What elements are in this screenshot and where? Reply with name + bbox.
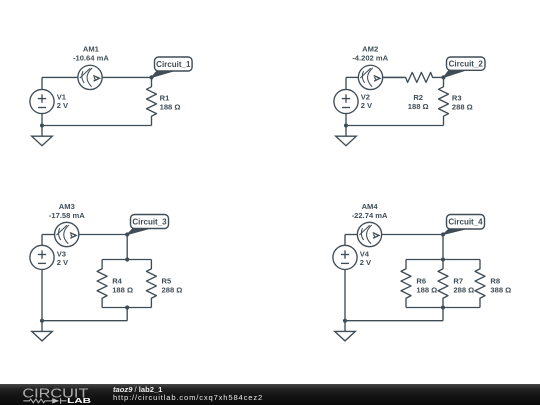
wire parallel bottom rail <box>406 307 480 309</box>
wire AM3 to node Circuit_3 <box>79 234 127 236</box>
node flag Circuit_4 <box>443 215 485 235</box>
svg-text:R1: R1 <box>160 93 170 102</box>
wire parallel bottom to rail <box>126 308 128 321</box>
wire V2 top to AM2 <box>346 76 358 78</box>
wire V4 up <box>344 235 346 246</box>
resistor R1 <box>147 77 157 125</box>
voltage source V4 <box>333 245 357 269</box>
wire V1 top to AM1 <box>42 76 78 78</box>
svg-text:188 Ω: 188 Ω <box>416 285 437 294</box>
svg-text:388 Ω: 388 Ω <box>490 285 511 294</box>
svg-text:288 Ω: 288 Ω <box>162 285 183 294</box>
wire V4 top to AM4 <box>345 234 358 236</box>
svg-text:-10.64 mA: -10.64 mA <box>73 54 109 63</box>
svg-text:Circuit_3: Circuit_3 <box>132 217 167 226</box>
wire bottom rail <box>346 125 444 127</box>
label R7 value <box>453 276 474 294</box>
svg-text:R2: R2 <box>413 93 423 102</box>
wire V3 down <box>41 270 43 321</box>
junction parallel top <box>441 257 445 261</box>
svg-text:2 V: 2 V <box>57 101 69 110</box>
label V1 value <box>57 92 69 109</box>
ground <box>336 126 357 146</box>
CircuitLab logo <box>0 384 100 405</box>
label V3 value <box>57 250 69 267</box>
svg-text:AM4: AM4 <box>362 202 379 211</box>
voltage source V3 <box>30 245 54 269</box>
svg-text:AM1: AM1 <box>83 45 100 54</box>
resistor R6 <box>401 260 411 308</box>
wire V3 up <box>41 235 43 246</box>
svg-text:R8: R8 <box>490 276 500 285</box>
junction parallel top <box>125 257 129 261</box>
label AM2 reading <box>352 45 388 63</box>
wire V2 up <box>345 77 347 89</box>
junction V4 ground <box>343 319 347 323</box>
node flag Circuit_1 <box>152 57 193 77</box>
wire AM2 to R2 <box>383 76 404 78</box>
label V4 value <box>360 250 372 267</box>
wire bottom rail <box>42 320 127 322</box>
wire AM4 to node Circuit_4 <box>382 234 443 236</box>
wire AM1 to node Circuit_1 <box>102 76 151 78</box>
svg-text:-22.74 mA: -22.74 mA <box>352 211 388 220</box>
label R2 value <box>408 93 429 111</box>
label AM3 reading <box>49 202 85 220</box>
svg-text:-4.202 mA: -4.202 mA <box>352 54 388 63</box>
junction V3 ground <box>40 319 44 323</box>
label R4 value <box>112 276 133 294</box>
junction V1 ground <box>40 123 44 127</box>
wire bottom rail <box>345 320 443 322</box>
svg-text:188 Ω: 188 Ω <box>408 102 429 111</box>
ammeter AM3 <box>55 222 79 246</box>
footer text: author / title <box>113 386 263 402</box>
node Circuit_2 <box>441 75 445 79</box>
node flag Circuit_2 <box>444 57 486 77</box>
wire V1 up <box>41 77 43 89</box>
resistor R7 <box>438 260 448 308</box>
label R3 value <box>452 93 473 111</box>
footer bar <box>0 384 540 405</box>
resistor R8 <box>475 260 485 308</box>
wire bottom rail <box>42 125 152 127</box>
junction parallel bottom <box>125 305 129 309</box>
node flag Circuit_3 <box>127 215 168 235</box>
svg-text:R5: R5 <box>162 276 172 285</box>
svg-text:LAB: LAB <box>67 396 91 405</box>
node Circuit_1 <box>149 75 153 79</box>
label R6 value <box>416 276 437 294</box>
label AM1 reading <box>73 45 109 63</box>
label R8 value <box>490 276 511 294</box>
wire node to parallel top <box>126 235 128 260</box>
svg-text:2 V: 2 V <box>361 101 373 110</box>
svg-text:-17.58 mA: -17.58 mA <box>49 211 85 220</box>
svg-text:188 Ω: 188 Ω <box>112 285 133 294</box>
svg-text:2 V: 2 V <box>360 258 372 267</box>
ammeter AM1 <box>78 65 102 89</box>
label V2 value <box>361 92 373 109</box>
svg-text:R4: R4 <box>112 276 122 285</box>
junction V2 ground <box>344 123 348 127</box>
label R5 value <box>162 276 183 294</box>
wire parallel top rail <box>102 259 151 261</box>
wire V2 down <box>345 114 347 126</box>
node Circuit_4 <box>441 232 445 236</box>
svg-text:288 Ω: 288 Ω <box>453 285 474 294</box>
voltage source V2 <box>334 89 358 113</box>
wire parallel bottom rail <box>102 307 151 309</box>
wire parallel top rail <box>406 259 480 261</box>
wire V1 down <box>41 114 43 126</box>
wire V4 down <box>344 270 346 321</box>
label R1 value <box>160 93 181 111</box>
svg-text:Circuit_2: Circuit_2 <box>449 60 484 69</box>
svg-text:288 Ω: 288 Ω <box>452 102 473 111</box>
wire parallel bottom to rail <box>442 308 444 321</box>
svg-text:2 V: 2 V <box>57 258 69 267</box>
svg-text:Circuit_1: Circuit_1 <box>156 60 191 69</box>
wire node to parallel top <box>442 235 444 260</box>
label AM4 reading <box>352 202 388 220</box>
junction parallel bottom <box>441 305 445 309</box>
wire V3 top to AM3 <box>42 234 55 236</box>
resistor R2 <box>383 72 444 82</box>
ammeter AM2 <box>358 65 382 89</box>
resistor R5 <box>146 260 156 308</box>
ground <box>335 321 356 341</box>
ground <box>32 126 53 146</box>
svg-text:R3: R3 <box>452 93 462 102</box>
ground <box>32 321 53 341</box>
ammeter AM4 <box>357 222 381 246</box>
svg-text:Circuit_4: Circuit_4 <box>448 218 483 227</box>
voltage source V1 <box>30 89 54 113</box>
resistor R3 <box>439 77 449 125</box>
resistor R4 <box>97 260 107 308</box>
svg-text:188 Ω: 188 Ω <box>160 102 181 111</box>
node Circuit_3 <box>125 232 129 236</box>
svg-text:R6: R6 <box>416 276 426 285</box>
svg-text:R7: R7 <box>453 276 463 285</box>
svg-text:AM2: AM2 <box>362 45 378 54</box>
svg-text:AM3: AM3 <box>59 202 75 211</box>
